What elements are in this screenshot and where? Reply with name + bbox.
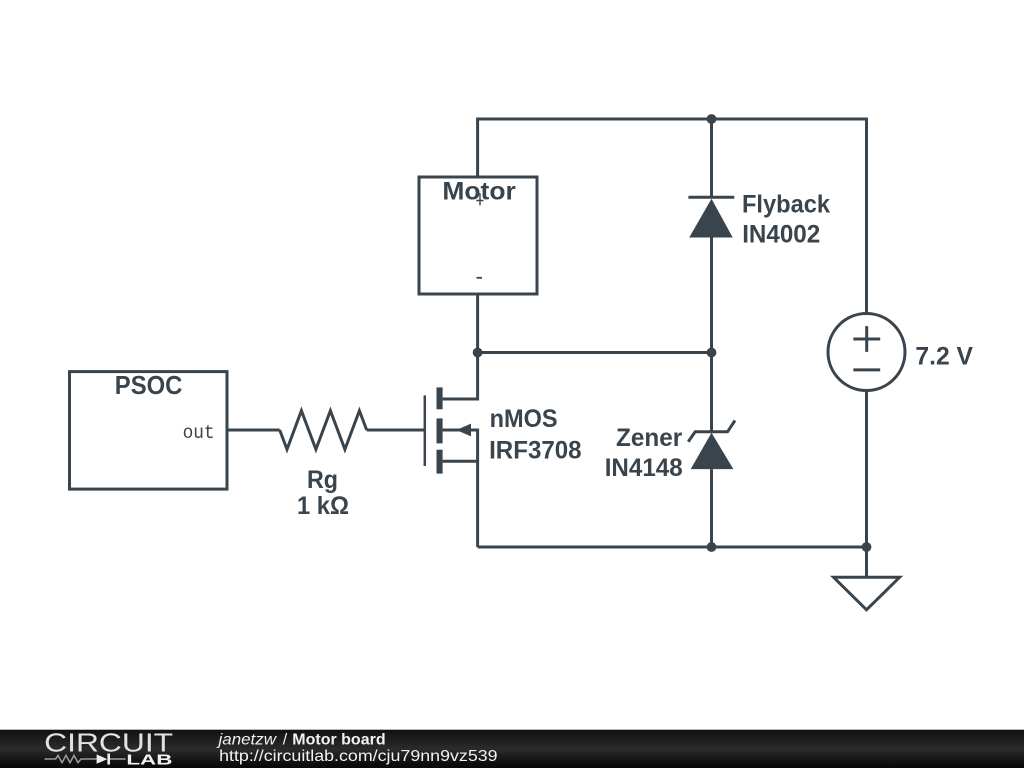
wire: motor + terminal up to top rail [478, 119, 712, 177]
wire: nMOS source lead to bottom rail [443, 461, 478, 547]
svg-text:LAB: LAB [126, 752, 172, 768]
svg-text:IN4148: IN4148 [605, 454, 683, 482]
motor - pin mark [477, 277, 483, 279]
zener diode D2 triangle [691, 433, 734, 469]
junction node: bottom rail / ground [862, 542, 872, 552]
wire: flyback anode to mid rail [710, 238, 713, 353]
svg-text:Zener: Zener [616, 424, 682, 452]
ground triangle [834, 577, 900, 610]
motor + pin mark [476, 193, 483, 205]
logo resistor zigzag [45, 755, 97, 762]
nMOS Q1 channel top bar (drain) [437, 387, 443, 409]
svg-text:IRF3708: IRF3708 [489, 436, 582, 464]
wire: flyback cathode to top rail [710, 119, 713, 197]
footer bar [0, 730, 1024, 768]
voltage source V1 minus sign [853, 368, 880, 371]
svg-text:Flyback: Flyback [742, 191, 830, 219]
nMOS Q1 channel middle bar (body) [437, 418, 443, 443]
voltage source V1 circle [828, 314, 905, 391]
wire: nMOS drain lead [443, 353, 478, 400]
ground stem [865, 547, 868, 577]
motor M1 box [419, 177, 537, 294]
nMOS Q1 body arrow [456, 424, 471, 437]
svg-text:Rg: Rg [307, 466, 338, 494]
svg-text:/: / [283, 731, 288, 748]
svg-text:Motor: Motor [442, 178, 516, 206]
PSOC box [70, 370, 228, 489]
zener diode D2 cathode z-bar [688, 421, 735, 442]
nMOS Q1 gate plate [424, 395, 427, 466]
wire: mid rail to zener cathode [710, 353, 713, 432]
wire: source V1 bottom to ground node [865, 391, 868, 548]
wire: PSOC out to resistor [227, 429, 280, 432]
junction node: motor bottom / drain [473, 348, 483, 358]
svg-text:1 kΩ: 1 kΩ [297, 492, 349, 520]
wire: top rail right to source V1 [712, 119, 867, 314]
junction node: mid rail / flyback-zener [707, 348, 717, 358]
svg-text:PSOC: PSOC [115, 370, 183, 400]
svg-text:janetzw: janetzw [216, 731, 277, 748]
wire: resistor to nMOS gate [367, 429, 425, 432]
wire: zener anode to bottom rail [710, 469, 713, 547]
logo diode symbol [97, 754, 108, 763]
flyback diode D1 cathode bar [688, 196, 734, 199]
voltage source V1 plus sign [853, 326, 880, 352]
junction node: top rail / flyback [707, 114, 717, 124]
svg-text:7.2 V: 7.2 V [915, 343, 973, 371]
svg-text:http://circuitlab.com/cju79nn9: http://circuitlab.com/cju79nn9vz539 [219, 748, 498, 765]
svg-text:Motor board: Motor board [292, 731, 385, 748]
wire: nMOS body lead [443, 430, 478, 461]
wire: bottom rail [478, 546, 867, 549]
wire: motor - terminal down to drain node [476, 294, 479, 353]
resistor Rg zigzag [280, 411, 367, 450]
svg-text:IN4002: IN4002 [742, 220, 820, 248]
flyback diode D1 triangle [689, 199, 733, 238]
svg-text:out: out [183, 422, 215, 444]
junction node: bottom rail / zener [707, 542, 717, 552]
svg-text:nMOS: nMOS [490, 405, 558, 433]
nMOS Q1 channel bottom bar (source) [437, 450, 443, 474]
wire: mid rail drain node to flyback/zener column [478, 351, 712, 354]
